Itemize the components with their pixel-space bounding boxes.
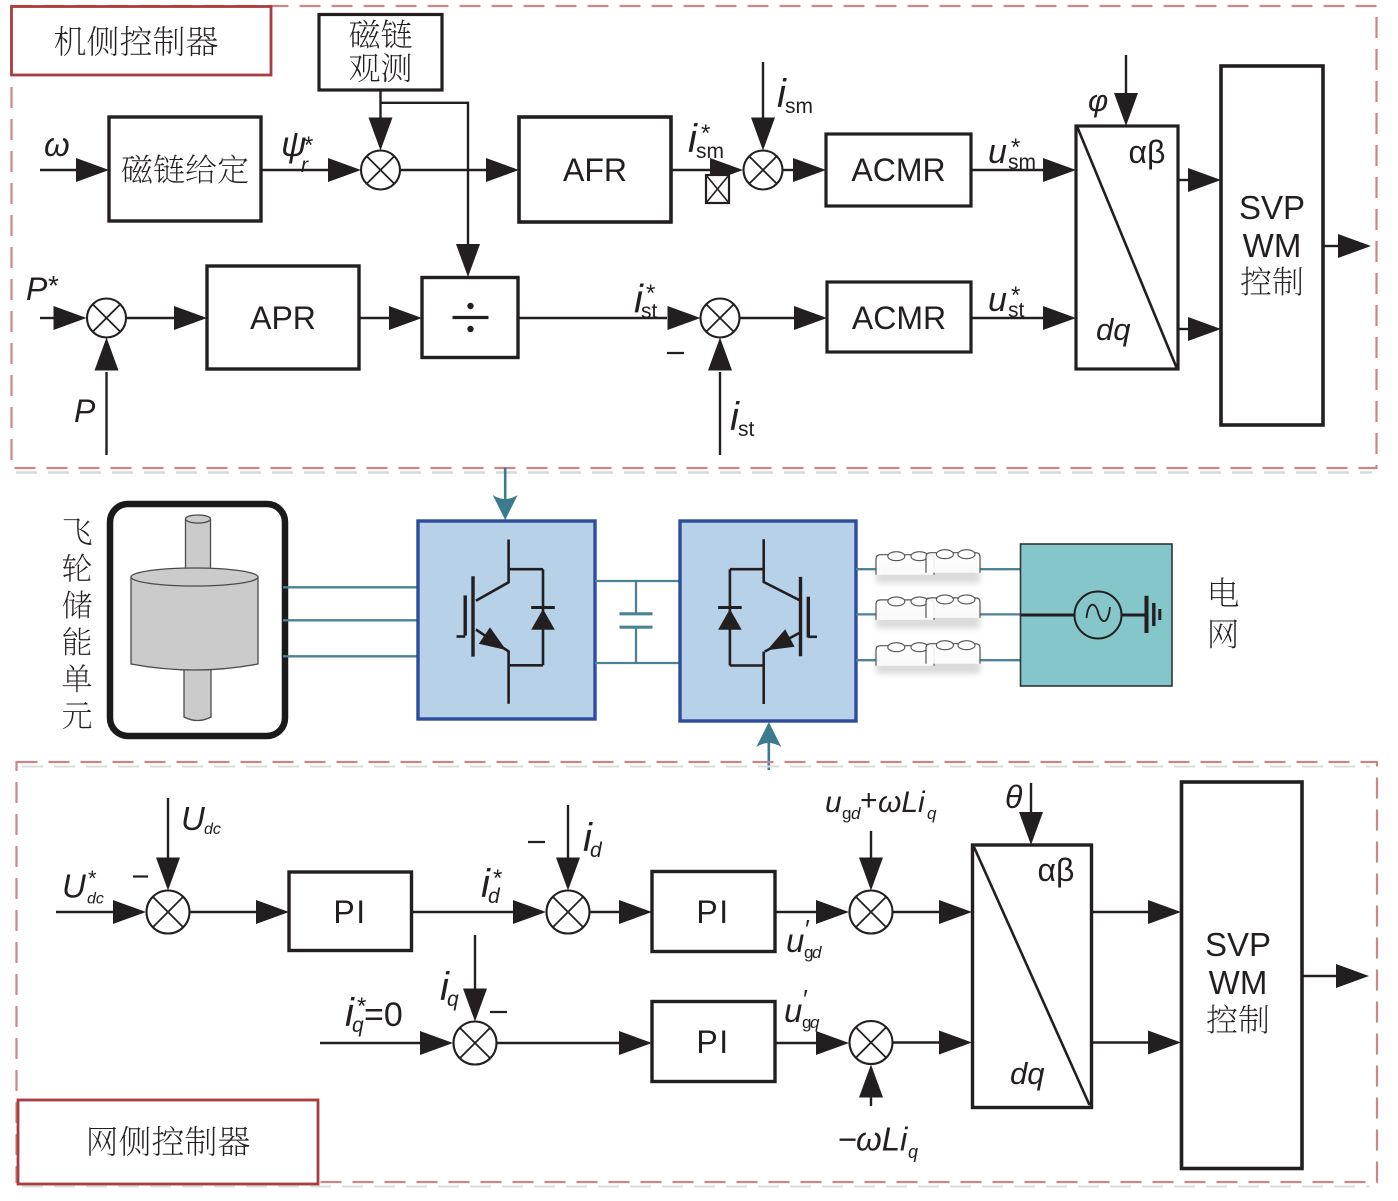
svg-text:st: st bbox=[738, 418, 755, 441]
svg-text:*: * bbox=[493, 865, 502, 892]
svg-text:+: + bbox=[860, 784, 878, 817]
svg-text:*: * bbox=[1011, 134, 1020, 161]
minus sign for S4 bbox=[667, 352, 684, 354]
wire S1 to AFR bbox=[400, 169, 486, 171]
svg-text:ACMR: ACMR bbox=[852, 300, 946, 336]
input i_st arrow up bbox=[719, 372, 721, 455]
wire APR to divider bbox=[359, 317, 389, 319]
svg-text:q: q bbox=[908, 1142, 918, 1162]
svg-text:PI: PI bbox=[333, 894, 366, 930]
grid box bbox=[1021, 544, 1173, 686]
svg-text:u: u bbox=[825, 786, 842, 819]
divider block ÷ bbox=[422, 278, 518, 358]
wire S3 to APR bbox=[126, 317, 174, 319]
minus sign at S5 bbox=[133, 875, 148, 877]
wire S5 to PI1 bbox=[190, 911, 257, 913]
svg-text:*: * bbox=[48, 270, 59, 301]
grid-side controller dashed boundary bbox=[17, 762, 1378, 1182]
DC-link capacitor bbox=[635, 581, 637, 614]
three-phase wires flywheel to converter1 bbox=[283, 586, 419, 588]
wire observer branch right bbox=[381, 102, 469, 104]
svg-text:q: q bbox=[810, 1013, 820, 1032]
wire S6 to PI2 bbox=[590, 911, 620, 913]
svg-text:u: u bbox=[988, 133, 1007, 171]
flywheel machine box bbox=[110, 504, 285, 736]
svg-text:*: * bbox=[701, 120, 710, 147]
svg-text:P: P bbox=[26, 271, 48, 307]
label box 网侧控制器 bbox=[18, 1100, 318, 1184]
wire omega input bbox=[40, 169, 76, 171]
input U_dc arrow down bbox=[167, 798, 169, 858]
svg-text:dc: dc bbox=[204, 821, 221, 838]
wire T1 lower output to SVPWM bbox=[1178, 328, 1189, 330]
block 磁链观测 (flux observer) bbox=[319, 15, 442, 91]
summing junction S9 bbox=[850, 1021, 893, 1064]
three-phase wires converter2 to inductors to grid bbox=[856, 568, 880, 570]
svg-text:dq: dq bbox=[1096, 312, 1131, 347]
wire S2 to ACMR1 bbox=[783, 169, 795, 171]
svg-text:αβ: αβ bbox=[1129, 134, 1166, 170]
input u_gd+wLiq arrow down bbox=[870, 831, 872, 858]
input -wLiq arrow up bbox=[870, 1096, 872, 1106]
input i_q arrow down bbox=[474, 935, 476, 989]
block PI (q-axis current regulator) bbox=[652, 1002, 775, 1082]
wire PI2 to S7 bbox=[775, 911, 816, 913]
svg-text:ωLi: ωLi bbox=[856, 1121, 909, 1158]
filter inductors phase A bbox=[876, 561, 980, 583]
svg-text:′: ′ bbox=[803, 984, 808, 1014]
faint shadow of boundary dashes bbox=[16, 471, 1372, 474]
teal control arrow into converter2 (from grid controller) bbox=[767, 741, 770, 770]
input phi arrow bbox=[1125, 55, 1127, 94]
grid label 电网 bbox=[1211, 577, 1238, 606]
svg-text:q: q bbox=[447, 988, 459, 1011]
block SVPWM control (grid side) bbox=[1182, 782, 1303, 1169]
wire ACMR1 to transform T1 bbox=[971, 169, 1043, 171]
wire divider to S4 bbox=[518, 317, 667, 319]
wire U_dc* input bbox=[56, 911, 113, 913]
svg-text:−: − bbox=[838, 1121, 857, 1158]
filter inductors phase C bbox=[876, 652, 980, 674]
block SVPWM control (machine side) bbox=[1221, 66, 1323, 425]
svg-text:*: * bbox=[646, 280, 655, 307]
flywheel drawing: top shaft bbox=[131, 515, 258, 721]
svg-text:WM: WM bbox=[1209, 964, 1268, 1001]
svg-text:d: d bbox=[590, 839, 603, 862]
input i_d arrow down bbox=[567, 805, 569, 858]
svg-text:ωLi: ωLi bbox=[878, 786, 926, 819]
summing junction S5 (DC voltage) bbox=[147, 891, 190, 934]
block ACMR (stator m-axis current regulator) bbox=[826, 134, 971, 206]
block APR (active power regulator) bbox=[207, 266, 359, 369]
wire S8 to PI3 bbox=[497, 1042, 620, 1044]
flywheel drawing: rotor cylinder bbox=[131, 577, 258, 670]
svg-text:U: U bbox=[181, 800, 205, 837]
grid-side converter box bbox=[680, 521, 856, 721]
SVPWM2 output arrow bbox=[1302, 975, 1336, 977]
SVPWM1 output arrow bbox=[1323, 245, 1339, 247]
svg-text:ω: ω bbox=[44, 126, 70, 163]
svg-text:u: u bbox=[988, 281, 1007, 319]
IGBT2 (grid side, mirrored) with antiparallel diode bbox=[718, 539, 817, 704]
wire T1 upper output to SVPWM bbox=[1178, 179, 1189, 181]
svg-text:q: q bbox=[927, 804, 937, 823]
svg-text:φ: φ bbox=[1088, 83, 1108, 118]
wire branch down to divider bbox=[467, 102, 469, 245]
IGBT1 (machine side) with antiparallel diode bbox=[457, 540, 555, 704]
wire i_q* input bbox=[320, 1042, 420, 1044]
input theta arrow bbox=[1030, 783, 1032, 813]
wire PI1 to S6 bbox=[412, 911, 514, 913]
svg-text:P: P bbox=[74, 393, 96, 429]
input P arrow up bbox=[105, 372, 107, 455]
svg-text:WM: WM bbox=[1243, 227, 1302, 264]
svg-text:′: ′ bbox=[805, 914, 810, 944]
filter inductors phase B bbox=[876, 606, 980, 628]
label box 机侧控制器 bbox=[12, 7, 272, 76]
svg-text:dc: dc bbox=[87, 891, 104, 908]
wire flux ref to summing junction bbox=[261, 169, 328, 171]
svg-text:*: * bbox=[1011, 282, 1020, 309]
block PI (voltage regulator) bbox=[289, 872, 412, 951]
wire observer down to junction bbox=[379, 90, 381, 122]
limiter symbol (crossed box) bbox=[706, 175, 729, 203]
wire ACMR2 to T1 bbox=[971, 317, 1043, 319]
svg-text:d: d bbox=[812, 943, 822, 962]
svg-text:PI: PI bbox=[696, 894, 729, 930]
AC source symbol bbox=[1021, 614, 1076, 617]
block PI (d-axis current regulator) bbox=[652, 872, 775, 952]
block ACMR (stator t-axis current regulator) bbox=[827, 282, 971, 352]
svg-text:u: u bbox=[786, 922, 804, 959]
wire P* input bbox=[40, 317, 56, 319]
svg-text:=0: =0 bbox=[364, 996, 403, 1034]
DC bus wires bbox=[595, 580, 680, 582]
svg-text:AFR: AFR bbox=[563, 152, 627, 188]
svg-text:θ: θ bbox=[1005, 779, 1023, 815]
svg-text:sm: sm bbox=[785, 95, 813, 118]
svg-text:SVP: SVP bbox=[1205, 926, 1271, 963]
block AFR bbox=[519, 117, 671, 222]
machine-side controller dashed boundary bbox=[12, 6, 1377, 468]
input i_sm arrow bbox=[762, 62, 764, 118]
machine-side converter box bbox=[418, 521, 595, 719]
wire PI3 to S9 bbox=[775, 1042, 816, 1044]
summing junction S8 (q current) bbox=[454, 1022, 497, 1065]
minus sign at S6 bbox=[528, 841, 545, 843]
svg-text:APR: APR bbox=[250, 300, 316, 336]
summing junction S7 bbox=[850, 891, 893, 934]
summing junction S3 (power) bbox=[87, 299, 126, 338]
wire T2 upper output to SVPWM2 bbox=[1092, 911, 1149, 913]
svg-text:*: * bbox=[304, 132, 313, 159]
summing junction S6 (d current) bbox=[547, 891, 590, 934]
svg-text:U: U bbox=[62, 868, 86, 905]
flywheel unit label 飞轮储能单元 bbox=[64, 518, 92, 545]
summing junction S1 (flux) bbox=[361, 151, 400, 190]
teal control arrow into converter1 (from machine controller) bbox=[504, 468, 507, 501]
wire S9 to T2 bbox=[893, 1041, 940, 1043]
wire AFR to S2 bbox=[671, 169, 710, 171]
svg-text:PI: PI bbox=[696, 1024, 729, 1060]
ground symbol bbox=[1145, 596, 1149, 633]
coordinate transform dq->alphabeta T1 bbox=[1076, 126, 1178, 369]
summing junction S4 (i_st) bbox=[701, 299, 740, 338]
coordinate transform dq->alphabeta T2 bbox=[973, 845, 1092, 1108]
svg-text:u: u bbox=[784, 992, 802, 1029]
svg-text:*: * bbox=[88, 866, 97, 891]
svg-text:dq: dq bbox=[1010, 1056, 1045, 1091]
svg-text:αβ: αβ bbox=[1038, 852, 1075, 888]
minus sign at S8 bbox=[490, 1011, 507, 1013]
block 磁链给定 (flux reference) bbox=[109, 117, 261, 221]
flywheel drawing: bottom shaft bbox=[184, 668, 211, 721]
wire S7 to T2 bbox=[893, 911, 940, 913]
wire S4 to ACMR2 bbox=[740, 317, 795, 319]
summing junction S2 (i_sm) bbox=[744, 151, 783, 190]
wire T2 lower output to SVPWM2 bbox=[1092, 1041, 1149, 1043]
faint shadow of boundary dashes bbox=[22, 766, 1370, 768]
svg-text:ACMR: ACMR bbox=[851, 152, 945, 188]
svg-text:SVP: SVP bbox=[1239, 189, 1305, 226]
